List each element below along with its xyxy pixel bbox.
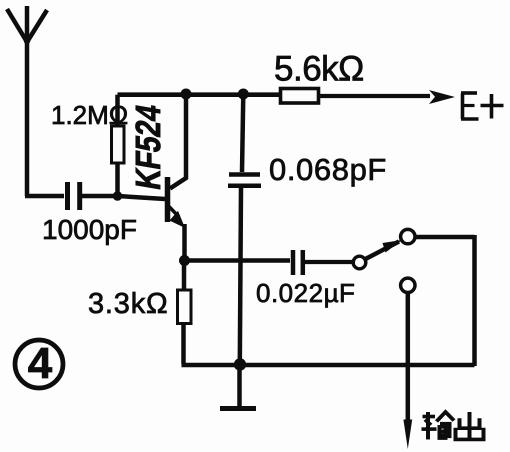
svg-text:KF524: KF524 [128,101,167,192]
svg-text:5.6kΩ: 5.6kΩ [274,50,364,89]
svg-text:1.2MΩ: 1.2MΩ [51,100,128,130]
svg-text:3.3kΩ: 3.3kΩ [88,288,169,320]
svg-text:1000pF: 1000pF [42,214,137,245]
svg-text:0.022µF: 0.022µF [256,278,355,308]
svg-text:0.068pF: 0.068pF [269,152,387,187]
svg-text:4: 4 [28,339,53,388]
